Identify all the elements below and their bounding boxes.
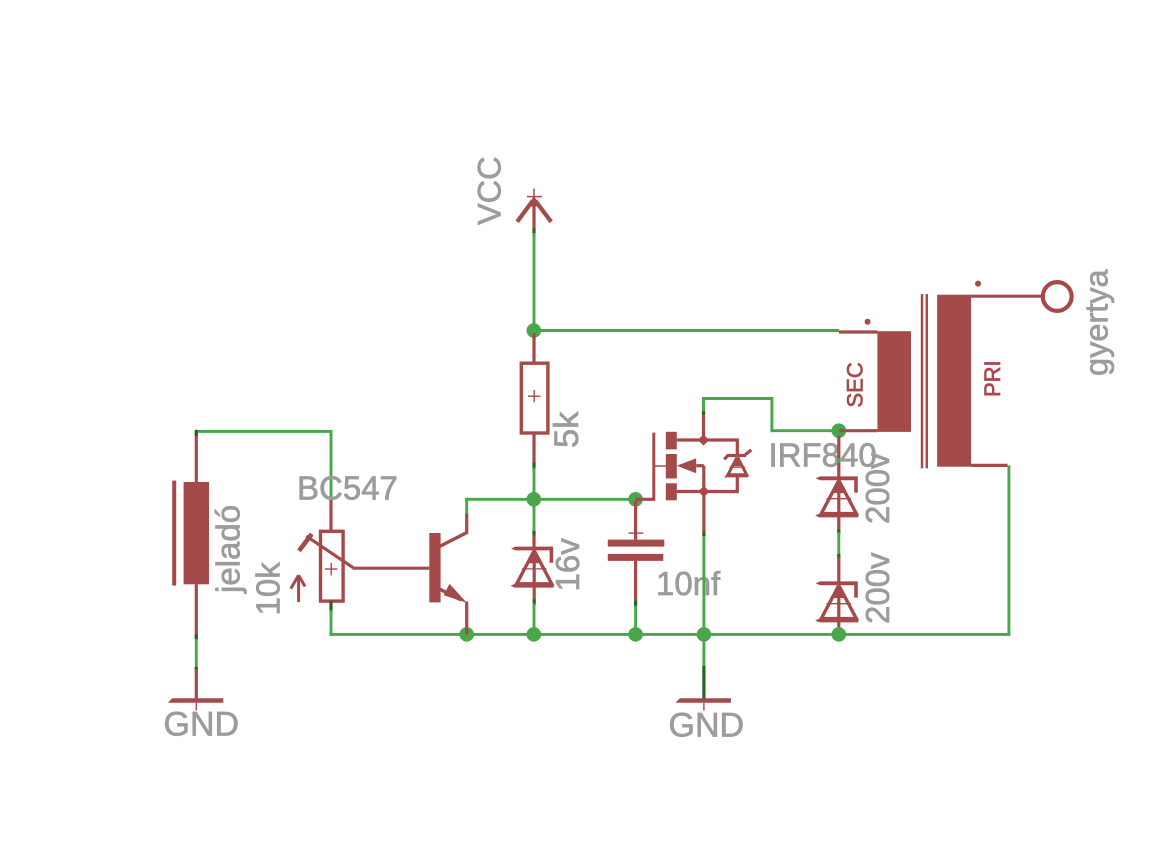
ground rail wire [330,633,1011,636]
svg-text:gyertya: gyertya [1079,268,1115,376]
junction cap top node [628,492,643,507]
inductive sensor jeladó [172,433,209,637]
wire cap to rail [634,601,637,608]
junction cap rail [628,627,643,642]
svg-text:jeladó: jeladó [210,505,247,594]
terminal gyertya [1043,282,1072,311]
mosfet body zener [724,450,751,478]
svg-text:VCC: VCC [472,156,508,225]
wire sensor to ground [195,637,198,670]
polarity dot PRI [975,281,981,287]
capacitor 10nf [608,501,665,602]
transistor Q1 BC547 [429,513,467,634]
junction source rail [697,627,712,642]
wire 5k to node [532,463,535,470]
transformer SEC winding [839,331,911,432]
wire PRI bottom to rail [1007,465,1010,635]
svg-text:10nf: 10nf [656,565,721,602]
junction zener D2 rail [832,627,847,642]
zener diode D2 200v [815,581,858,622]
junction drain SEC node [832,423,847,438]
wire sensor top to trimmer [196,430,332,433]
mosfet Q2 IRF840 [636,412,739,533]
svg-text:PRI: PRI [980,360,1005,397]
resistor 5k [521,333,548,464]
transformer core [921,294,923,468]
zener diode D1 200v [815,476,858,517]
power VCC symbol [517,189,551,229]
wire wiper to base [353,567,430,570]
svg-text:10k: 10k [250,562,287,616]
svg-text:200v: 200v [859,452,896,524]
transformer PRI winding [937,295,1041,467]
zener diode 16v [511,547,554,588]
wire source to rail [702,532,705,538]
svg-text:GND: GND [164,706,240,744]
ground GND middle [675,640,731,711]
wire node to zener D1 [837,436,840,458]
wire VCC to node [532,229,535,235]
ground GND left [168,669,224,711]
svg-text:5k: 5k [548,411,586,448]
svg-text:16v: 16v [549,538,586,592]
wire to SEC top [534,329,839,332]
trimmer potentiometer 10k [291,500,353,602]
svg-text:200v: 200v [859,552,896,624]
junction zener rail [527,627,542,642]
wire between zeners [837,530,840,535]
junction VCC node [527,323,542,338]
wire drain to SEC bottom [702,409,705,415]
svg-text:BC547: BC547 [297,470,398,507]
wire collector node [465,498,468,514]
svg-text:SEC: SEC [843,362,868,407]
wire trimmer bottom to rail [329,601,332,612]
svg-text:GND: GND [669,706,745,744]
junction base node [527,492,542,507]
wire node to zener [533,499,536,532]
polarity dot SEC [865,319,871,325]
junction emitter rail [459,627,474,642]
